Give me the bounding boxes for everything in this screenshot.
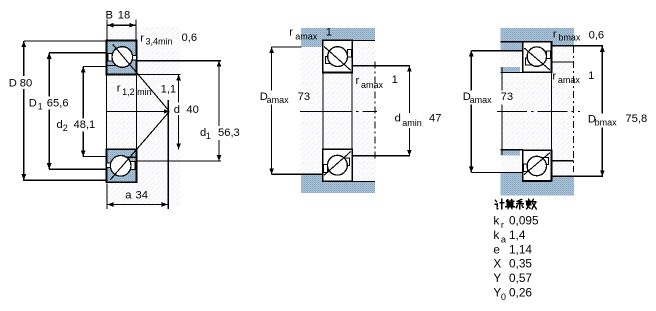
svg-text:k: k — [493, 214, 499, 228]
svg-text:56,3: 56,3 — [218, 127, 240, 139]
bearing lower section (middle) — [323, 149, 353, 181]
svg-text:2: 2 — [63, 123, 68, 133]
bearing upper section (middle) — [323, 40, 353, 72]
dimension d2 48,1 — [83, 66, 106, 68]
svg-text:amin: amin — [402, 118, 422, 128]
svg-text:k: k — [493, 228, 499, 242]
bearing upper section (left figure) — [107, 41, 137, 75]
svg-text:1,14: 1,14 — [509, 242, 532, 256]
svg-text:a: a — [125, 190, 132, 202]
svg-text:1: 1 — [38, 102, 43, 112]
shaft shoulder left face (right) — [501, 67, 503, 155]
svg-text:73: 73 — [501, 91, 513, 103]
svg-text:1: 1 — [588, 70, 594, 82]
svg-text:34: 34 — [136, 190, 148, 202]
svg-text:65,6: 65,6 — [47, 98, 69, 110]
svg-text:0,35: 0,35 — [509, 257, 532, 271]
svg-text:B: B — [106, 10, 113, 22]
hatch background middle figure — [300, 27, 376, 193]
contact angle line lower — [110, 112, 169, 180]
svg-text:bmax: bmax — [595, 118, 618, 128]
shaft shoulder strip upper (right) — [500, 67, 520, 73]
hatch background right figure — [500, 27, 576, 196]
svg-text:1: 1 — [326, 27, 332, 39]
svg-text:r: r — [356, 75, 360, 87]
housing block top (right) — [500, 28, 574, 51]
table header 计算系数 (CJK drawn as paths) — [495, 199, 536, 209]
svg-text:D: D — [9, 78, 17, 90]
contact angle line upper — [113, 45, 170, 112]
housing block bottom (middle) — [301, 174, 375, 193]
svg-text:0,57: 0,57 — [509, 271, 532, 285]
housing block bottom (right) — [500, 172, 574, 195]
svg-text:D: D — [29, 98, 37, 110]
axis line (middle) — [300, 110, 377, 112]
svg-text:r: r — [553, 29, 557, 41]
svg-text:47: 47 — [429, 113, 441, 125]
bearing lower section (right) — [523, 150, 552, 180]
svg-text:r: r — [140, 33, 144, 45]
svg-text:1,1: 1,1 — [161, 83, 177, 95]
shoulder dash-dot vertical (middle) — [374, 62, 376, 160]
svg-text:1: 1 — [206, 131, 211, 141]
svg-text:r: r — [501, 220, 504, 230]
dimension d1 56,3 — [137, 60, 222, 62]
svg-text:amax: amax — [558, 75, 581, 85]
svg-text:d: d — [57, 119, 63, 131]
svg-text:e: e — [493, 242, 500, 256]
svg-text:0,095: 0,095 — [509, 214, 539, 228]
bearing bore face lines — [106, 75, 108, 150]
svg-text:0,26: 0,26 — [509, 286, 532, 300]
svg-text:0,6: 0,6 — [589, 30, 605, 42]
svg-text:80: 80 — [20, 78, 32, 90]
shaft shoulder strip lower (right) — [500, 150, 520, 156]
housing dash-dot vertical (right) — [573, 46, 575, 172]
svg-text:0: 0 — [501, 292, 506, 302]
axis line with apex arrow — [107, 110, 165, 112]
svg-text:bmax: bmax — [558, 33, 581, 43]
svg-text:1: 1 — [392, 74, 398, 86]
dimension d 40 — [178, 74, 180, 149]
dimension D1 65,6 — [49, 52, 106, 54]
svg-text:1,4: 1,4 — [509, 228, 526, 242]
svg-text:18: 18 — [118, 10, 130, 22]
dimension d_amin 47 — [408, 66, 410, 156]
svg-text:amax: amax — [361, 80, 384, 90]
hatch background left figure — [106, 27, 180, 207]
shaft shoulder lines (middle) — [352, 65, 410, 67]
svg-text:3,4min: 3,4min — [146, 37, 173, 47]
svg-text:d: d — [174, 104, 180, 116]
housing shoulder lines (right) — [552, 61, 574, 63]
svg-text:d: d — [395, 113, 401, 125]
svg-text:a: a — [501, 234, 507, 244]
axis line (right) — [497, 110, 580, 112]
dimension B 18 — [106, 20, 108, 41]
svg-text:r: r — [117, 82, 121, 94]
housing block top (middle) — [301, 28, 375, 47]
label r1,2min 1,1 — [137, 73, 181, 75]
svg-text:40: 40 — [186, 104, 198, 116]
dimension D_bmax 75,8 — [601, 46, 603, 177]
dimension D_amax 73 (middle) — [272, 46, 302, 48]
svg-text:amax: amax — [267, 95, 290, 105]
svg-text:r: r — [289, 26, 293, 38]
svg-text:1,2 min: 1,2 min — [122, 87, 152, 97]
dimension a 34 — [106, 184, 108, 210]
svg-text:r: r — [552, 71, 556, 83]
bearing upper section (right) — [523, 42, 552, 72]
svg-text:73: 73 — [298, 91, 310, 103]
svg-text:0,6: 0,6 — [182, 32, 198, 44]
shaft face lines (middle) — [322, 73, 324, 150]
svg-text:75,8: 75,8 — [625, 113, 647, 125]
dimension D 80 — [24, 40, 107, 42]
svg-text:48,1: 48,1 — [74, 119, 96, 131]
svg-text:amax: amax — [470, 95, 493, 105]
dimension D_amax 73 (right) — [470, 51, 472, 173]
bearing lower section (left figure) — [107, 149, 137, 182]
svg-text:amax: amax — [295, 32, 318, 42]
svg-text:X: X — [493, 257, 501, 271]
svg-text:Y: Y — [493, 271, 501, 285]
